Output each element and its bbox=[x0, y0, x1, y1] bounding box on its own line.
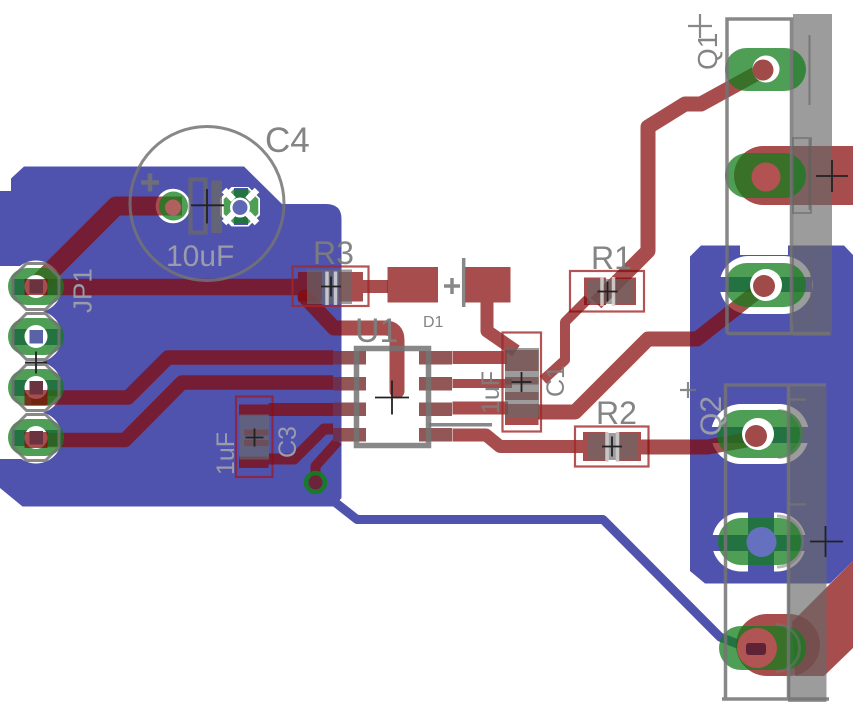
thermal spoke JP1 pad 4 bbox=[12, 430, 71, 446]
clearance around capacitor C4 left pad bbox=[156, 189, 191, 224]
JP1 pad 3 bbox=[8, 369, 64, 406]
IC U1 outline bbox=[357, 349, 429, 446]
thermal spoke Q1 pad 3 bbox=[719, 277, 812, 292]
transistor Q1 pad3 tab bracket bbox=[793, 248, 811, 323]
capacitor C4 right pad octagon bbox=[224, 189, 259, 224]
thermal spoke Q2 pad 1 bbox=[711, 427, 809, 443]
transistor Q2 pad 2 bbox=[718, 518, 802, 565]
resistor R3 outline bbox=[293, 267, 369, 307]
diode D1 pad left bbox=[388, 267, 439, 303]
transistor Q2 pad 1 bbox=[717, 410, 803, 458]
thermal spoke JP1 pad 2 bbox=[12, 329, 71, 345]
svg-text:C4: C4 bbox=[265, 121, 310, 160]
transistor Q1 pad3 hole bbox=[753, 275, 775, 297]
IC U1 pin pads left bbox=[342, 351, 367, 365]
wire U1 pin6 to C1 mid bbox=[453, 379, 513, 388]
svg-text:U1: U1 bbox=[355, 312, 398, 350]
wire D1 to capacitor C1 bbox=[487, 303, 516, 352]
svg-text:C3: C3 bbox=[274, 426, 302, 458]
wire bottom-layer trace board pour to Q2 pad 3 bbox=[336, 503, 748, 648]
wire C3 to U1 pin3 bbox=[269, 403, 334, 416]
svg-text:1uF: 1uF bbox=[477, 371, 505, 414]
resistor R3 end-cap bars bbox=[327, 272, 336, 306]
svg-text:R1: R1 bbox=[591, 240, 632, 276]
thermal spoke Q2 pad 2 bbox=[712, 535, 808, 551]
diode D1 cathode bar bbox=[462, 258, 466, 307]
transistor Q1 tab bbox=[793, 14, 832, 336]
capacitor C4 right pad ring bbox=[230, 198, 250, 218]
transistor Q2 origin cross bbox=[680, 382, 696, 398]
capacitor C1 pad top bbox=[505, 350, 539, 371]
capacitor C1 body bbox=[505, 348, 539, 417]
thermal spoke JP1 pad 3 bbox=[12, 380, 71, 396]
resistor R1 outline bbox=[570, 271, 644, 312]
transistor Q2 pad1 hole bbox=[745, 425, 767, 447]
transistor Q2 tab cross bbox=[810, 526, 843, 557]
clearance around transistor Q2 pad 1 bbox=[711, 404, 809, 464]
svg-text:1uF: 1uF bbox=[212, 432, 240, 475]
resistor R2 outline bbox=[575, 427, 649, 467]
transistor Q2 tab mark upper bbox=[788, 398, 806, 401]
svg-text:Q1: Q1 bbox=[692, 33, 723, 70]
capacitor C4 right pad hole bbox=[233, 200, 248, 215]
wire R1 to capacitor C1 bbox=[543, 299, 588, 380]
transistor Q2 pad2 arc bbox=[777, 516, 803, 567]
transistor Q2 tab mark lower bbox=[788, 503, 806, 506]
transistor Q2 pad3 restring bbox=[737, 628, 777, 668]
resistor R1 pad left bbox=[584, 278, 606, 306]
transistor Q2 pad3 top copper stadium bbox=[736, 614, 820, 676]
via drill hole bbox=[309, 476, 323, 490]
capacitor C4 plate solid bar bbox=[212, 181, 223, 234]
thermal spoke C4 right pad vertical bbox=[234, 188, 248, 225]
capacitor C4 origin cross bbox=[191, 189, 224, 224]
capacitor C4 left pad ring bbox=[159, 192, 188, 221]
JP1 octagon pad 4 outline bbox=[13, 415, 59, 461]
capacitor C3 plate mark lower bbox=[244, 440, 269, 446]
clearance around header JP1 pad 3 bbox=[10, 362, 62, 414]
resistor R1 end-cap bars bbox=[602, 277, 614, 306]
svg-text:Q2: Q2 bbox=[695, 396, 728, 436]
svg-text:10uF: 10uF bbox=[166, 240, 234, 273]
transistor Q1 tab pad top copper bbox=[734, 146, 853, 205]
capacitor C4 silkscreen circle bbox=[130, 127, 284, 281]
clearance around header JP1 pad 1 bbox=[10, 261, 62, 313]
IC U1 pin pads right bbox=[419, 351, 452, 365]
transistor Q2 pad3 arc bbox=[776, 625, 799, 672]
transistor Q1 origin cross bbox=[688, 14, 712, 38]
transistor Q1 pad 3 bbox=[725, 263, 806, 307]
resistor R2 pad left bbox=[583, 432, 608, 461]
capacitor C3 outline bbox=[236, 397, 273, 478]
clearance around transistor Q1 pad 3 bbox=[720, 256, 813, 314]
transistor Q1 pad1 ring bbox=[753, 56, 780, 83]
diode D1 plus marker bbox=[444, 278, 460, 294]
capacitor C3 origin cross bbox=[246, 429, 264, 447]
JP1 pad 4 bbox=[8, 419, 64, 456]
wire R3 to U1 center bbox=[305, 297, 397, 391]
transistor Q2 pad1 ring bbox=[742, 418, 774, 450]
transistor Q1 tab notch line 2 bbox=[809, 139, 811, 210]
clearance around transistor Q2 pad 2 bbox=[712, 513, 806, 572]
resistor R1 body bbox=[587, 279, 633, 304]
IC U1 pin pads left over pour bbox=[333, 351, 342, 365]
via ring bbox=[306, 473, 325, 492]
JP1 pad3 restring ring bbox=[25, 376, 48, 399]
wire JP1 pad3 to U1 pin1 bbox=[31, 358, 333, 398]
clearance octagon C4 right pad bbox=[220, 187, 260, 227]
transistor Q2 pad3 slot hole bbox=[746, 643, 766, 655]
resistor R3 pad left bbox=[298, 272, 322, 302]
transistor Q1 tab cross bbox=[816, 160, 848, 192]
resistor R1 pad right bbox=[614, 278, 636, 306]
wire JP1 pad4 to U1 pin2 bbox=[31, 383, 333, 441]
resistor R2 body bbox=[587, 433, 637, 460]
clearance around header JP1 pad 2 bbox=[10, 311, 62, 363]
svg-text:R3: R3 bbox=[313, 235, 354, 271]
capacitor C3 body bbox=[240, 415, 270, 460]
capacitor C1 plate mark upper bbox=[505, 377, 539, 385]
transistor Q1 pad 1 bbox=[725, 48, 806, 91]
wire R1 to transistor Q1 pad1 bbox=[596, 70, 763, 303]
JP1 pad1 drill hole bbox=[30, 280, 44, 294]
JP1 pad2 restring ring bbox=[25, 325, 48, 348]
wire U1 pin5 to C1 top bbox=[453, 351, 508, 364]
capacitor C3 pad bottom bbox=[239, 457, 269, 469]
capacitor C1 plate mark lower bbox=[505, 392, 539, 400]
resistor R2 origin cross bbox=[602, 437, 622, 457]
svg-text:JP1: JP1 bbox=[68, 268, 98, 313]
resistor R2 end-cap bars bbox=[607, 432, 618, 462]
capacitor C4 right pad clearance X bbox=[224, 190, 257, 223]
wire U1 pin7 to C1 bottom bbox=[453, 402, 509, 415]
transistor Q1 pad2 hole bbox=[752, 163, 781, 192]
capacitor C1 origin cross bbox=[512, 372, 532, 392]
svg-text:C1: C1 bbox=[542, 365, 570, 397]
IC U1 origin cross bbox=[375, 381, 409, 415]
resistor R1 origin cross bbox=[598, 282, 618, 302]
wire R2 to transistor Q2 pad1 bbox=[641, 438, 757, 447]
svg-text:D1: D1 bbox=[423, 314, 444, 331]
transistor Q1 pad2 tab bracket bbox=[793, 138, 811, 213]
resistor R3 pad right bbox=[339, 272, 363, 302]
JP1 pad4 restring ring bbox=[25, 426, 48, 449]
transistor Q1 pad1 hole bbox=[753, 60, 774, 81]
transistor Q1 tab notch line bbox=[809, 35, 811, 105]
thermal spoke Q2 pad 2 vertical bbox=[748, 512, 774, 574]
JP1 pad3 drill hole bbox=[30, 381, 44, 395]
capacitor C3 plate mark upper bbox=[244, 430, 269, 436]
resistor R3 origin cross bbox=[321, 277, 341, 297]
JP1 pad 1 bbox=[8, 268, 64, 305]
capacitor C3 pad top bbox=[239, 405, 269, 416]
clearance around header JP1 pad 4 bbox=[10, 412, 62, 464]
thermal spoke JP1 pad 1 bbox=[12, 279, 71, 295]
bottom copper pour (left board polygon) bbox=[0, 167, 342, 507]
transistor Q2 pad 3 bbox=[719, 626, 806, 670]
capacitor C1 outline bbox=[503, 333, 542, 432]
JP1 pad4 drill hole bbox=[30, 431, 44, 445]
resistor R2 pad right bbox=[616, 432, 641, 461]
wire R3 to diode D1 bbox=[363, 280, 388, 293]
wire U1 pin8 to resistor R2 bbox=[453, 435, 584, 447]
transistor Q2 outline bbox=[722, 385, 829, 699]
wire C3 to U1 pin4 bbox=[269, 429, 334, 459]
wire C1 to transistor Q1 pad3 bbox=[538, 287, 763, 412]
capacitor C4 plate hollow bar bbox=[191, 180, 206, 233]
wire JP1 pad1 to capacitor C4 bbox=[34, 206, 182, 288]
wire JP1 pad1 to resistor R3 bbox=[36, 279, 298, 296]
transistor Q2 pad1 arc bbox=[778, 411, 801, 458]
transistor Q1 pad3 ring bbox=[750, 269, 782, 301]
transistor Q2 pad2 hole bbox=[747, 527, 777, 557]
JP1 octagon pad 3 outline bbox=[13, 365, 59, 411]
clearance left column JP1 bbox=[0, 266, 36, 459]
JP1 pad2 drill hole bbox=[30, 330, 44, 344]
header JP1 origin cross bbox=[25, 352, 47, 374]
JP1 pad 2 bbox=[8, 318, 64, 355]
JP1 octagon pad 1 outline bbox=[13, 264, 59, 310]
JP1 octagon pad 2 outline bbox=[13, 314, 59, 360]
transistor Q2 tab bbox=[788, 387, 827, 702]
capacitor C1 pad bottom bbox=[505, 404, 539, 425]
bottom copper pour (Q1/Q2 right polygon) bbox=[690, 246, 853, 584]
transistor Q1 outline bbox=[727, 19, 830, 334]
diode D1 pad right bbox=[465, 267, 511, 303]
wire via to U1 pin4 bbox=[316, 441, 339, 481]
JP1 pad1 restring ring bbox=[25, 275, 48, 298]
capacitor C4 plus marker bbox=[141, 174, 159, 192]
transistor Q2 pad3 copper band to board edge bbox=[792, 561, 853, 676]
resistor R3 body bbox=[307, 270, 352, 305]
clearance notch Q1 pad 3 top bbox=[740, 243, 788, 255]
silk line right of U1 bbox=[429, 423, 492, 427]
svg-text:R2: R2 bbox=[596, 395, 637, 431]
transistor Q1 pad 2 bbox=[725, 153, 806, 198]
capacitor C4 left pad hole bbox=[165, 200, 181, 216]
